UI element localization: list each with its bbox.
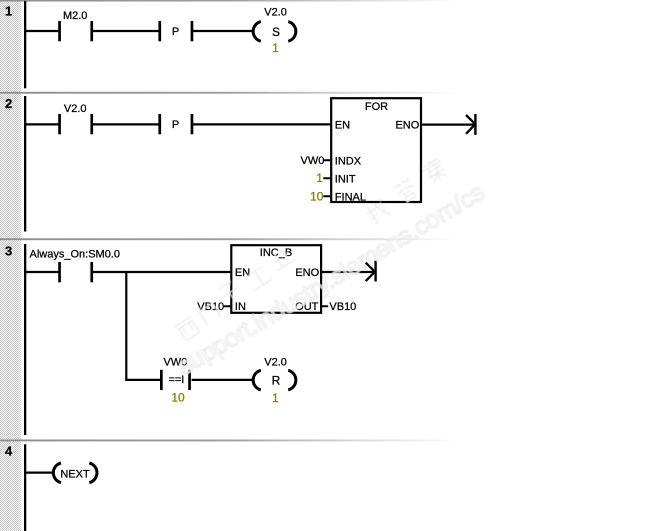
svg-text:V2.0: V2.0	[264, 356, 287, 368]
svg-text:INIT: INIT	[335, 173, 356, 185]
svg-text:1: 1	[272, 391, 279, 405]
svg-text:3: 3	[5, 244, 12, 259]
svg-text:VB10: VB10	[329, 301, 356, 313]
svg-text:M2.0: M2.0	[63, 10, 87, 22]
svg-text:V2.0: V2.0	[264, 7, 287, 19]
svg-text:R: R	[272, 373, 281, 387]
svg-text:IN: IN	[235, 301, 246, 313]
svg-text:EN: EN	[235, 267, 250, 279]
svg-text:ENO: ENO	[395, 119, 419, 131]
svg-text:FINAL: FINAL	[335, 191, 366, 203]
svg-text:1: 1	[272, 41, 279, 55]
svg-text:support.industry.siemens.com/c: support.industry.siemens.com/cs	[173, 178, 489, 381]
svg-text:VW0: VW0	[301, 155, 325, 167]
svg-text:==I: ==I	[168, 374, 184, 386]
svg-text:EN: EN	[335, 119, 350, 131]
svg-text:FOR: FOR	[365, 101, 388, 113]
svg-text:P: P	[172, 119, 179, 131]
svg-text:10: 10	[310, 189, 324, 203]
svg-text:S: S	[272, 25, 280, 39]
svg-text:1: 1	[316, 171, 323, 185]
svg-text:P: P	[172, 26, 179, 38]
svg-text:4: 4	[5, 444, 13, 459]
svg-text:2: 2	[5, 96, 12, 111]
svg-text:NEXT: NEXT	[60, 469, 90, 481]
svg-text:V2.0: V2.0	[64, 103, 87, 115]
svg-text:10: 10	[171, 390, 185, 404]
svg-text:1: 1	[5, 4, 12, 19]
svg-text:INDX: INDX	[335, 155, 362, 167]
svg-text:Always_On:SM0.0: Always_On:SM0.0	[30, 248, 120, 260]
